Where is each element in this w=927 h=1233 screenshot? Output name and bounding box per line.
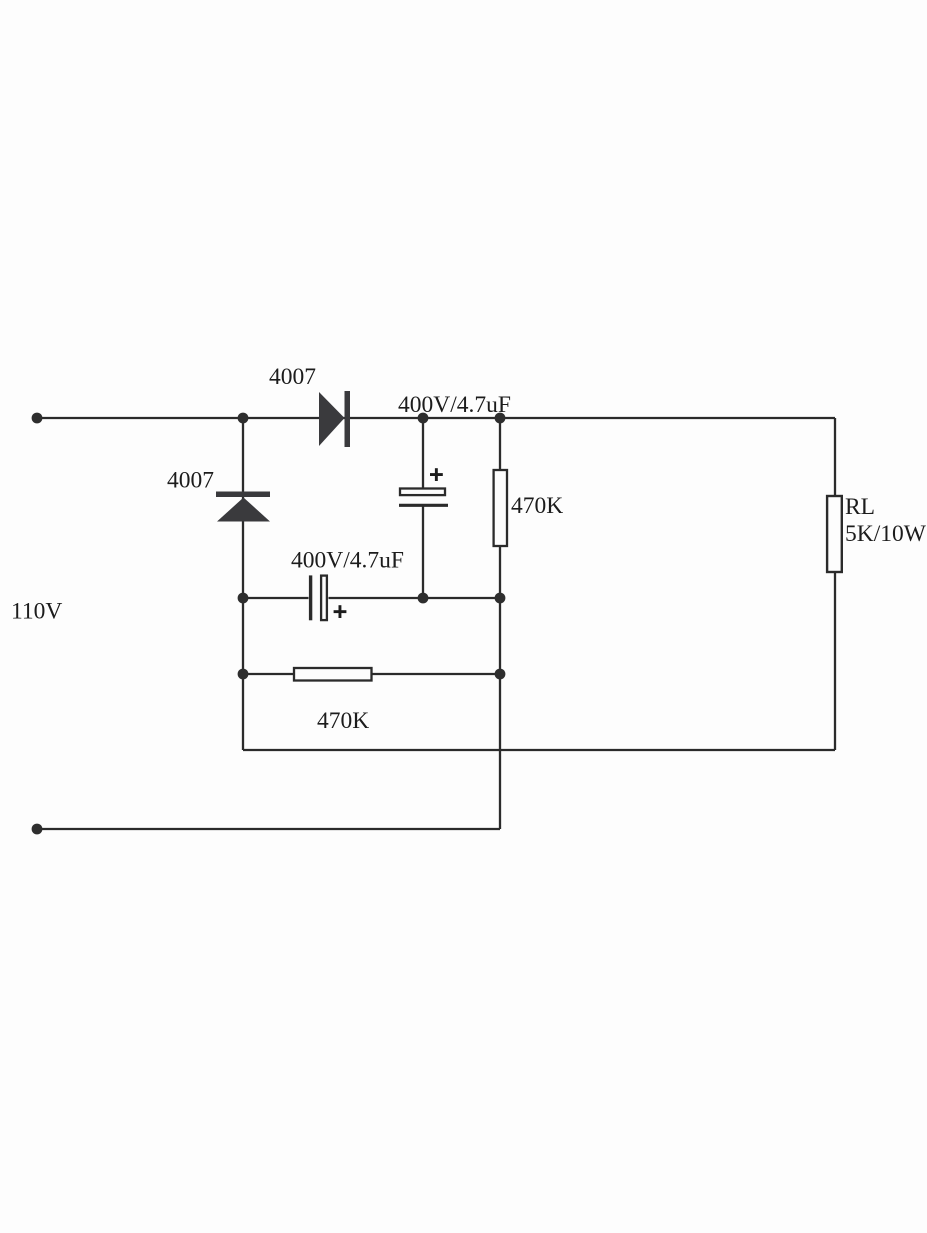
svg-text:400V/4.7uF: 400V/4.7uF <box>291 548 404 574</box>
svg-text:4007: 4007 <box>167 468 214 494</box>
svg-text:4007: 4007 <box>269 364 316 390</box>
svg-text:470K: 470K <box>317 708 369 734</box>
svg-text:400V/4.7uF: 400V/4.7uF <box>398 392 511 418</box>
svg-text:5K/10W: 5K/10W <box>845 521 927 547</box>
svg-text:470K: 470K <box>511 493 563 519</box>
svg-text:110V: 110V <box>11 599 62 625</box>
svg-text:RL: RL <box>845 494 875 520</box>
